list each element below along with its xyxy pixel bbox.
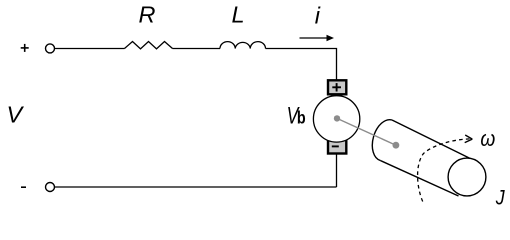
motor brush bottom (-) — [328, 140, 346, 154]
current arrow i — [300, 35, 335, 41]
wire: motor bottom brush down to bottom rail — [336, 154, 338, 187]
bottom-left terminal circle — [46, 183, 55, 192]
load cylinder J: top edge — [392, 120, 475, 161]
svg-text:ω: ω — [480, 127, 495, 152]
svg-text:b: b — [297, 108, 306, 128]
load cylinder J: bottom edge — [381, 161, 459, 196]
svg-text:L: L — [232, 1, 245, 27]
rotation arrow (dashed arc) — [418, 139, 470, 202]
svg-text:J: J — [495, 186, 505, 210]
shaft end dot — [393, 142, 400, 149]
brush + label — [332, 83, 341, 91]
wire: resistor to inductor — [173, 48, 221, 50]
motor armature circle — [313, 96, 359, 142]
resistor R — [125, 42, 173, 49]
wire: inductor to motor top brush (corner at top right) — [266, 49, 337, 80]
wire: bottom rail from terminal to motor branch — [55, 186, 337, 188]
+ polarity label of source V — [21, 44, 29, 52]
rotation arrowhead — [465, 135, 473, 143]
svg-text:V: V — [7, 102, 25, 128]
load cylinder J: left end cap arc — [372, 120, 392, 161]
inductor L — [220, 42, 266, 49]
brush - label — [332, 145, 339, 147]
load cylinder J: right end cap — [448, 158, 486, 196]
svg-text:R: R — [139, 2, 156, 28]
motor center dot — [334, 115, 340, 121]
motor brush top (+) — [328, 80, 346, 94]
svg-text:i: i — [315, 2, 321, 28]
- polarity label of source V — [21, 186, 26, 188]
top-left terminal circle — [46, 44, 55, 53]
shaft line from motor to load — [337, 118, 396, 145]
wire: top-left terminal to resistor — [55, 48, 125, 50]
